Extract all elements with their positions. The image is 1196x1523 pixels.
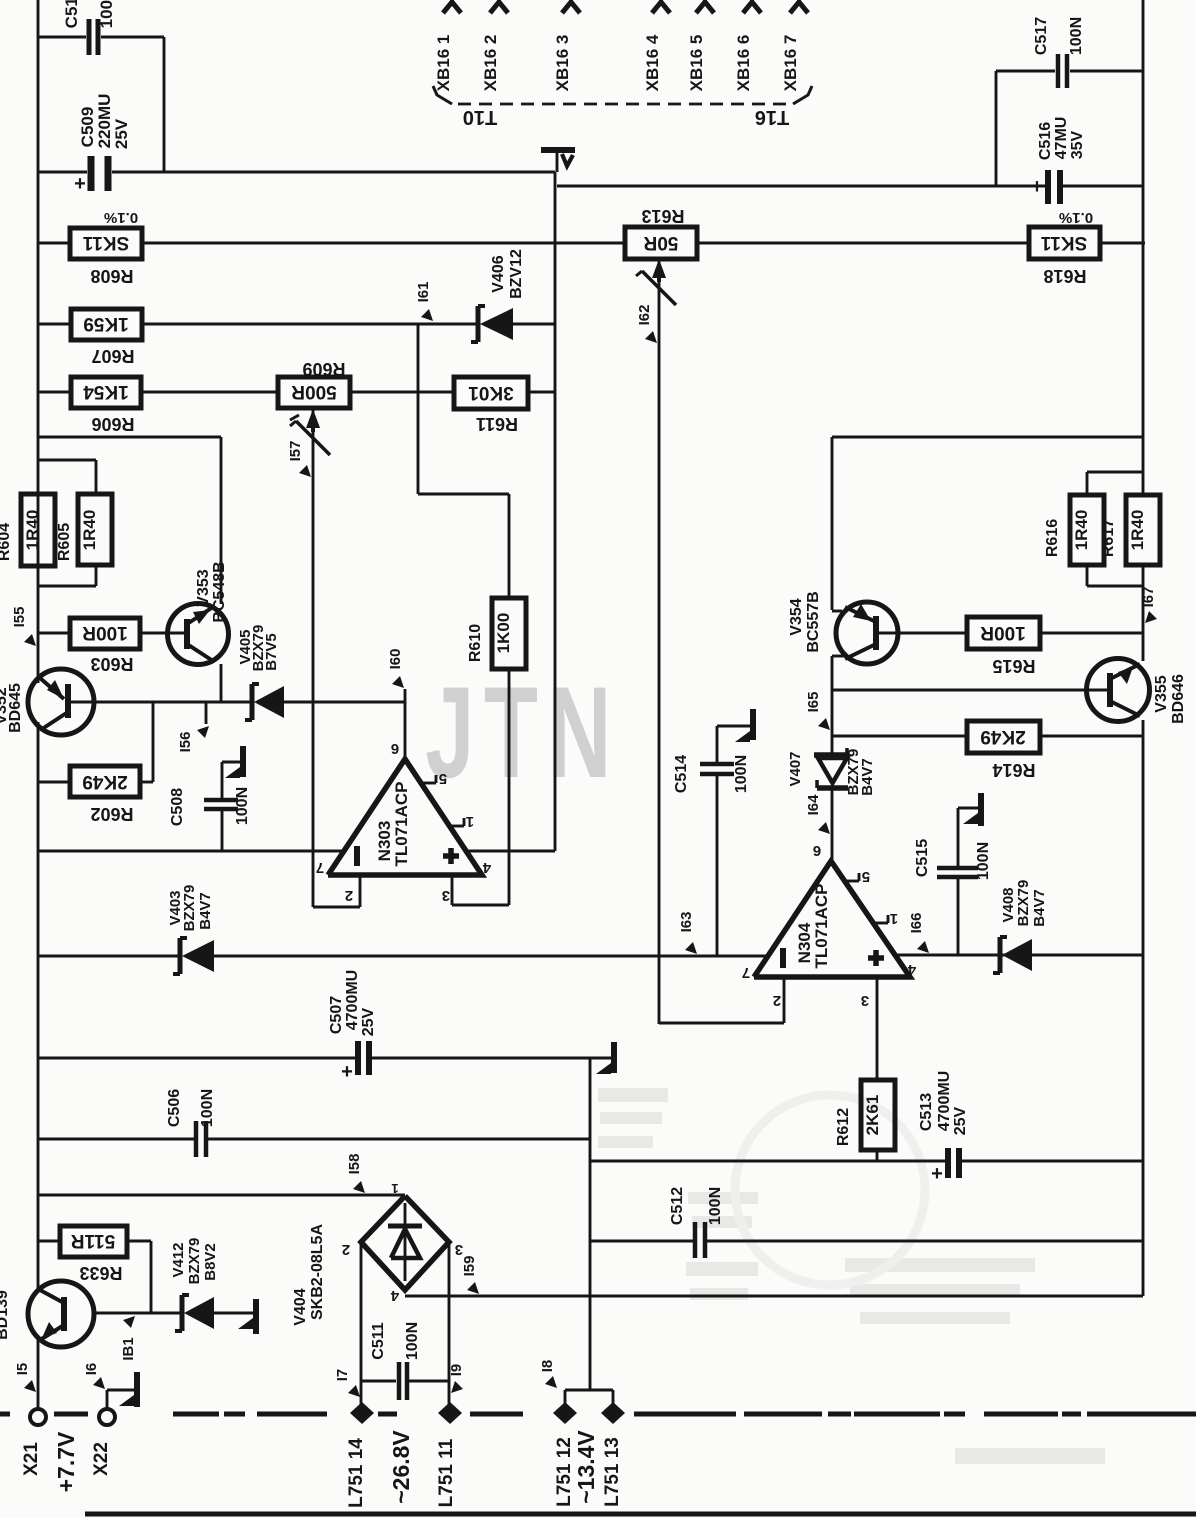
svg-text:V407: V407: [787, 751, 804, 786]
svg-text:50R: 50R: [643, 232, 678, 253]
svg-text:XB16 3: XB16 3: [553, 35, 572, 92]
svg-text:1: 1: [391, 1181, 398, 1196]
resistor R611: [454, 377, 528, 434]
JTN watermark: [425, 659, 621, 805]
svg-text:BD646: BD646: [1170, 674, 1187, 724]
wire N304 plus input row: [893, 954, 1143, 957]
wire R607 row: [38, 323, 555, 326]
svg-text:3: 3: [455, 1241, 463, 1258]
terminal X21: [21, 1409, 46, 1476]
svg-text:1R40: 1R40: [1072, 510, 1091, 551]
svg-text:V406: V406: [490, 255, 507, 292]
svg-text:SKB2-08L5A: SKB2-08L5A: [309, 1224, 326, 1320]
resistor R608: [70, 209, 142, 286]
svg-text:I5: I5: [14, 1363, 31, 1376]
svg-text:C514: C514: [673, 755, 690, 793]
connector dashed line: [458, 103, 788, 106]
wire left bus upper: [37, 0, 40, 683]
label +7.7V: [53, 1431, 79, 1492]
wire right bus lower: [1142, 720, 1145, 1296]
junction diamond L751 12: [553, 1402, 577, 1507]
svg-text:I64: I64: [805, 794, 822, 816]
svg-text:I60: I60: [387, 649, 404, 670]
resistor R614: [967, 721, 1040, 780]
wire R612 row: [590, 1160, 1143, 1163]
marker I59: [461, 1256, 479, 1294]
resistor R610: [467, 598, 526, 669]
ground near C515: [958, 793, 981, 826]
svg-text:V354: V354: [788, 598, 805, 635]
svg-text:R607: R607: [91, 346, 134, 366]
svg-text:BZX79: BZX79: [181, 885, 198, 932]
resistor R612: [835, 1080, 895, 1150]
resistor R607: [71, 309, 142, 366]
wire vertical D: [589, 1058, 592, 1390]
svg-text:2: 2: [773, 992, 781, 1009]
svg-text:R615: R615: [992, 656, 1035, 676]
svg-text:47MU: 47MU: [1053, 117, 1070, 160]
svg-text:B7V5: B7V5: [263, 633, 280, 671]
marker I56: [177, 702, 209, 752]
svg-text:7: 7: [742, 964, 750, 981]
marker I6: [83, 1363, 105, 1389]
op-amp N303 pin1 stub: [449, 813, 474, 830]
svg-text:1K54: 1K54: [83, 381, 129, 402]
svg-text:I6: I6: [83, 1363, 100, 1376]
capacitor C514: [673, 746, 750, 955]
wire bridge pin3 drop: [448, 1242, 451, 1409]
capacitor C510: [62, 0, 116, 55]
svg-text:BC557B: BC557B: [805, 591, 822, 652]
svg-text:I65: I65: [805, 692, 822, 713]
svg-text:BZV12: BZV12: [508, 249, 525, 299]
svg-text:1: 1: [466, 813, 474, 830]
connector bracket T10: [433, 86, 497, 128]
marker I58: [346, 1154, 365, 1193]
svg-text:I63: I63: [678, 912, 695, 933]
svg-text:~13.4V: ~13.4V: [573, 1430, 599, 1504]
capacitor C506: [166, 1089, 216, 1157]
svg-text:100N: 100N: [975, 842, 992, 880]
marker I62: [636, 305, 657, 343]
wire V352 base row: [66, 701, 405, 704]
svg-text:I66: I66: [908, 913, 925, 934]
wire R609 wiper: [312, 409, 315, 907]
svg-text:C516: C516: [1037, 122, 1054, 160]
svg-text:T16: T16: [755, 106, 789, 128]
wire bridge output row: [405, 1295, 1143, 1298]
svg-text:L751 13: L751 13: [602, 1437, 623, 1507]
capacitor C517: [1033, 17, 1085, 88]
wire C516 feed row: [557, 185, 996, 188]
transistor V353: [168, 561, 229, 664]
wire right bus middle: [1142, 565, 1145, 661]
connector pin XB16 1: [434, 0, 461, 91]
wire right bus top: [1142, 0, 1145, 495]
resistor R602: [70, 766, 140, 824]
svg-text:5: 5: [439, 770, 447, 787]
svg-text:1K00: 1K00: [494, 613, 513, 654]
wire V354 collector step: [832, 656, 844, 690]
svg-text:100N: 100N: [234, 787, 251, 825]
svg-text:100R: 100R: [980, 622, 1026, 643]
svg-text:100N: 100N: [707, 1187, 724, 1225]
svg-text:C515: C515: [914, 839, 931, 877]
svg-text:R613: R613: [641, 206, 684, 226]
wire C510 top row: [38, 36, 164, 39]
svg-text:3: 3: [442, 887, 450, 904]
capacitor C507: [328, 970, 377, 1083]
svg-text:6: 6: [391, 740, 399, 757]
wire C507 row: [38, 1057, 611, 1060]
ground near C507: [596, 1042, 614, 1074]
capacitor C516: [1031, 117, 1086, 204]
svg-text:+7.7V: +7.7V: [53, 1431, 79, 1492]
zener V407: [787, 748, 876, 796]
dash-dot boundary line: [0, 1412, 1196, 1417]
zener V408: [993, 880, 1048, 973]
marker I63: [678, 912, 697, 954]
resistor R616: [1044, 495, 1104, 565]
wire R605 top branch: [38, 460, 96, 494]
svg-text:R633: R633: [79, 1263, 122, 1283]
connector pin XB16 2: [481, 0, 508, 91]
svg-text:6: 6: [813, 842, 821, 859]
svg-text:+: +: [74, 173, 86, 195]
transistor V352: [0, 669, 94, 735]
bottom border line: [85, 1512, 1196, 1517]
resistor R603: [70, 618, 140, 674]
svg-text:BZX79: BZX79: [186, 1238, 203, 1285]
marker IB1: [120, 1316, 137, 1361]
ground near C508: [222, 746, 243, 778]
svg-text:3K01: 3K01: [468, 382, 514, 403]
wire 220MU row: [38, 171, 555, 174]
svg-text:TL071ACP: TL071ACP: [812, 883, 831, 968]
wire I58 row: [38, 1194, 405, 1197]
svg-text:JTN: JTN: [425, 659, 621, 805]
junction diamond L751 13: [601, 1402, 625, 1507]
svg-text:C508: C508: [169, 788, 186, 826]
svg-text:0.1%: 0.1%: [104, 209, 138, 226]
wire V354 base row: [878, 632, 967, 635]
svg-text:I57: I57: [287, 441, 304, 462]
capacitor C508: [169, 762, 251, 851]
resistor R618: [1029, 209, 1100, 286]
connector pin XB16 4: [643, 0, 670, 91]
marker I61: [415, 282, 433, 321]
resistor R613: [625, 206, 697, 259]
svg-text:1K59: 1K59: [83, 313, 128, 334]
svg-text:X22: X22: [91, 1442, 112, 1476]
wire R610 top branch: [418, 324, 509, 598]
svg-text:2K49: 2K49: [82, 771, 127, 792]
svg-text:C512: C512: [669, 1187, 686, 1225]
svg-text:R618: R618: [1043, 266, 1086, 286]
wire V353 emitter: [220, 664, 223, 702]
wire V354 emitter drop: [832, 437, 842, 611]
marker I67: [1140, 587, 1157, 623]
svg-text:2K49: 2K49: [980, 726, 1025, 747]
svg-text:XB16 7: XB16 7: [781, 35, 800, 92]
svg-text:B8V2: B8V2: [202, 1243, 219, 1281]
svg-text:C507: C507: [328, 996, 345, 1034]
wire R633 row: [38, 1241, 151, 1313]
ground near X22: [119, 1372, 137, 1407]
svg-text:7: 7: [316, 859, 324, 876]
wire N303 output: [404, 689, 407, 759]
marker I8: [539, 1360, 557, 1388]
svg-text:L751 11: L751 11: [436, 1438, 457, 1507]
op-amp N304: [742, 842, 916, 1009]
marker I57: [287, 441, 311, 477]
op-amp N304 pin1 stub: [873, 910, 898, 927]
wire R614 row left: [832, 735, 967, 738]
junction diamond L751 11: [436, 1402, 462, 1507]
svg-text:V404: V404: [292, 1288, 309, 1325]
svg-text:25V: 25V: [360, 1007, 377, 1036]
connector pin XB16 7: [781, 0, 808, 91]
svg-text:100N: 100N: [733, 755, 750, 793]
connector pin XB16 6: [734, 0, 761, 91]
marker I65: [805, 692, 830, 730]
wire R616 R617 top row: [832, 436, 1143, 439]
svg-text:100N: 100N: [1068, 17, 1085, 55]
capacitor C515: [914, 808, 992, 955]
wire R612 bottom stub: [876, 1150, 879, 1161]
svg-text:XB16 2: XB16 2: [481, 35, 500, 92]
wire V354 collector to V407: [831, 690, 834, 755]
label ~13.4V: [573, 1430, 599, 1504]
svg-text:R602: R602: [90, 804, 133, 824]
transistor V351 BD139: [0, 1281, 94, 1347]
connector pin XB16 5: [687, 0, 714, 91]
svg-text:25V: 25V: [112, 118, 131, 149]
marker I60: [387, 649, 404, 688]
svg-text:SK11: SK11: [82, 232, 129, 253]
svg-text:L751 14: L751 14: [346, 1438, 367, 1508]
capacitor C509: [74, 94, 131, 195]
svg-text:25V: 25V: [952, 1106, 969, 1135]
svg-text:R617: R617: [1100, 519, 1117, 557]
svg-text:4: 4: [390, 1287, 399, 1304]
svg-text:1: 1: [890, 910, 898, 927]
zener V412: [170, 1238, 219, 1331]
svg-text:I56: I56: [177, 732, 194, 753]
wire N304 pin2 step: [659, 977, 784, 1023]
svg-text:R605: R605: [56, 523, 73, 561]
svg-text:V412: V412: [170, 1242, 187, 1277]
svg-text:XB16 1: XB16 1: [434, 35, 453, 92]
op-amp N303 pin5 stub: [421, 770, 447, 787]
wire I8 tee: [565, 1390, 613, 1404]
resistor R615: [967, 617, 1040, 676]
transistor V355: [1087, 659, 1188, 724]
svg-text:I58: I58: [346, 1154, 363, 1175]
wire R605 bottom branch: [38, 565, 96, 586]
marker I55: [11, 607, 36, 646]
svg-text:C513: C513: [918, 1093, 935, 1131]
svg-text:BD139: BD139: [0, 1290, 11, 1340]
capacitor C512: [669, 1187, 724, 1258]
marker I5: [14, 1363, 36, 1392]
zener V405: [237, 625, 284, 720]
svg-text:XB16 5: XB16 5: [687, 35, 706, 92]
connector pin XB16 3: [553, 0, 580, 91]
wire C512 row: [590, 1240, 1143, 1243]
svg-text:I62: I62: [636, 305, 653, 326]
connector bracket T16: [755, 86, 812, 128]
svg-text:C517: C517: [1033, 17, 1050, 55]
svg-text:SK11: SK11: [1040, 232, 1087, 253]
wire C506 row: [38, 1138, 590, 1141]
marker I66: [908, 913, 929, 953]
wire V355 base row: [832, 689, 1110, 692]
svg-text:1R40: 1R40: [23, 510, 42, 551]
svg-text:4700MU: 4700MU: [936, 1071, 953, 1131]
resistor R609 potentiometer: [278, 359, 350, 455]
svg-text:V353: V353: [195, 569, 212, 606]
wire left bus middle: [37, 722, 40, 1290]
wire middle bus 555: [554, 172, 557, 851]
wire R610 bottom: [508, 669, 511, 905]
svg-text:IB1: IB1: [120, 1337, 137, 1360]
svg-text:R606: R606: [91, 414, 134, 434]
svg-text:I9: I9: [448, 1364, 465, 1377]
svg-text:R611: R611: [476, 414, 518, 434]
terminal X22: [91, 1409, 115, 1476]
svg-text:0.1%: 0.1%: [1059, 209, 1093, 226]
svg-text:511R: 511R: [71, 1230, 116, 1251]
capacitor C513: [918, 1071, 969, 1185]
svg-text:XB16 4: XB16 4: [643, 34, 662, 91]
op-amp N303: [316, 740, 491, 904]
junction diamond L751 14: [346, 1402, 374, 1508]
resistor R605: [78, 494, 112, 565]
wire R606 row: [38, 391, 555, 394]
wire R616 branch: [1087, 472, 1143, 495]
svg-text:+: +: [931, 1163, 943, 1185]
svg-text:+: +: [341, 1061, 353, 1083]
wire X22 stub: [107, 1390, 135, 1409]
svg-text:I59: I59: [461, 1256, 478, 1277]
marker I64: [805, 794, 830, 834]
wire R613 wiper vertical: [636, 259, 676, 1024]
wire BD139 base row: [94, 1312, 253, 1315]
svg-text:2K61: 2K61: [863, 1095, 882, 1136]
wire N303 pin7 row: [38, 850, 343, 853]
ground near V412: [238, 1299, 256, 1334]
svg-text:R612: R612: [835, 1108, 852, 1146]
svg-text:5: 5: [862, 868, 870, 885]
svg-text:~26.8V: ~26.8V: [388, 1430, 414, 1504]
wire R614 right: [1040, 735, 1143, 738]
wire R602 row: [38, 702, 153, 782]
svg-text:XB16 6: XB16 6: [734, 35, 753, 92]
wire C517 row: [996, 71, 1143, 186]
svg-text:T10: T10: [463, 106, 497, 128]
svg-text:R604: R604: [0, 523, 13, 561]
chassis symbol top: [541, 150, 575, 172]
wire C511 row: [361, 1380, 449, 1383]
wire V353 collector: [38, 437, 221, 604]
svg-text:BC548B: BC548B: [211, 561, 228, 622]
svg-text:500R: 500R: [291, 381, 337, 402]
svg-text:4700MU: 4700MU: [344, 970, 361, 1030]
svg-text:L751 12: L751 12: [554, 1437, 575, 1507]
svg-text:4: 4: [907, 961, 916, 978]
svg-text:B4V7: B4V7: [197, 892, 214, 930]
zener V403: [167, 885, 214, 974]
wire R608 row: [38, 242, 1145, 245]
svg-text:R614: R614: [992, 760, 1035, 780]
svg-text:R616: R616: [1044, 519, 1061, 557]
svg-text:100R: 100R: [82, 622, 128, 643]
wire C510 right drop: [163, 37, 166, 172]
svg-text:3: 3: [861, 992, 869, 1009]
svg-text:C511: C511: [370, 1322, 387, 1359]
svg-text:I67: I67: [1140, 587, 1157, 608]
svg-text:100N: 100N: [97, 0, 116, 28]
wire N304 pin3 step: [876, 979, 879, 1080]
svg-text:R609: R609: [302, 359, 345, 379]
svg-text:C510: C510: [62, 0, 81, 28]
wire inverting input row: [38, 955, 769, 958]
svg-text:V355: V355: [1153, 675, 1170, 712]
svg-text:2: 2: [342, 1241, 350, 1258]
wire N303 pin4 row: [466, 850, 555, 853]
wire R615 right: [1040, 632, 1143, 635]
svg-text:BZX79: BZX79: [1015, 880, 1032, 927]
label ~26.8V: [388, 1430, 414, 1504]
wire C516 row: [996, 185, 1143, 188]
svg-text:I8: I8: [539, 1360, 556, 1373]
svg-text:R603: R603: [90, 654, 133, 674]
svg-text:R608: R608: [90, 266, 133, 286]
wire bridge pin2 drop: [360, 1242, 363, 1409]
svg-text:2: 2: [345, 887, 353, 904]
svg-text:BD645: BD645: [7, 683, 24, 733]
wire R603 row: [38, 632, 186, 635]
svg-text:1R40: 1R40: [80, 510, 99, 551]
svg-text:1R40: 1R40: [1128, 510, 1147, 551]
svg-text:I61: I61: [415, 282, 432, 303]
marker I9: [448, 1364, 465, 1393]
svg-text:I7: I7: [334, 1369, 351, 1382]
resistor R606: [71, 377, 141, 434]
svg-text:35V: 35V: [1069, 130, 1086, 159]
svg-text:B4V7: B4V7: [1031, 889, 1048, 927]
bridge rectifier V404: [292, 1181, 463, 1326]
wire left bus lower (BD139 emitter to X21): [37, 1338, 40, 1409]
wire N303 pin3 step: [452, 875, 509, 905]
transistor V354: [788, 591, 898, 664]
marker I7: [334, 1369, 360, 1397]
svg-text:100N: 100N: [199, 1089, 216, 1127]
wire V407 to N304: [831, 789, 834, 861]
wire N303 pin2 step: [313, 875, 360, 907]
zener V406: [471, 249, 525, 342]
op-amp N304 pin5 stub: [845, 868, 870, 885]
paper bleed-through ghosts: [598, 1088, 1105, 1464]
ground near C514: [717, 709, 753, 746]
svg-text:I55: I55: [11, 607, 28, 628]
svg-text:C506: C506: [166, 1089, 183, 1127]
svg-text:100N: 100N: [404, 1322, 421, 1360]
svg-text:B4V7: B4V7: [859, 758, 876, 796]
capacitor C511: [370, 1322, 421, 1400]
resistor R617: [1100, 495, 1160, 565]
